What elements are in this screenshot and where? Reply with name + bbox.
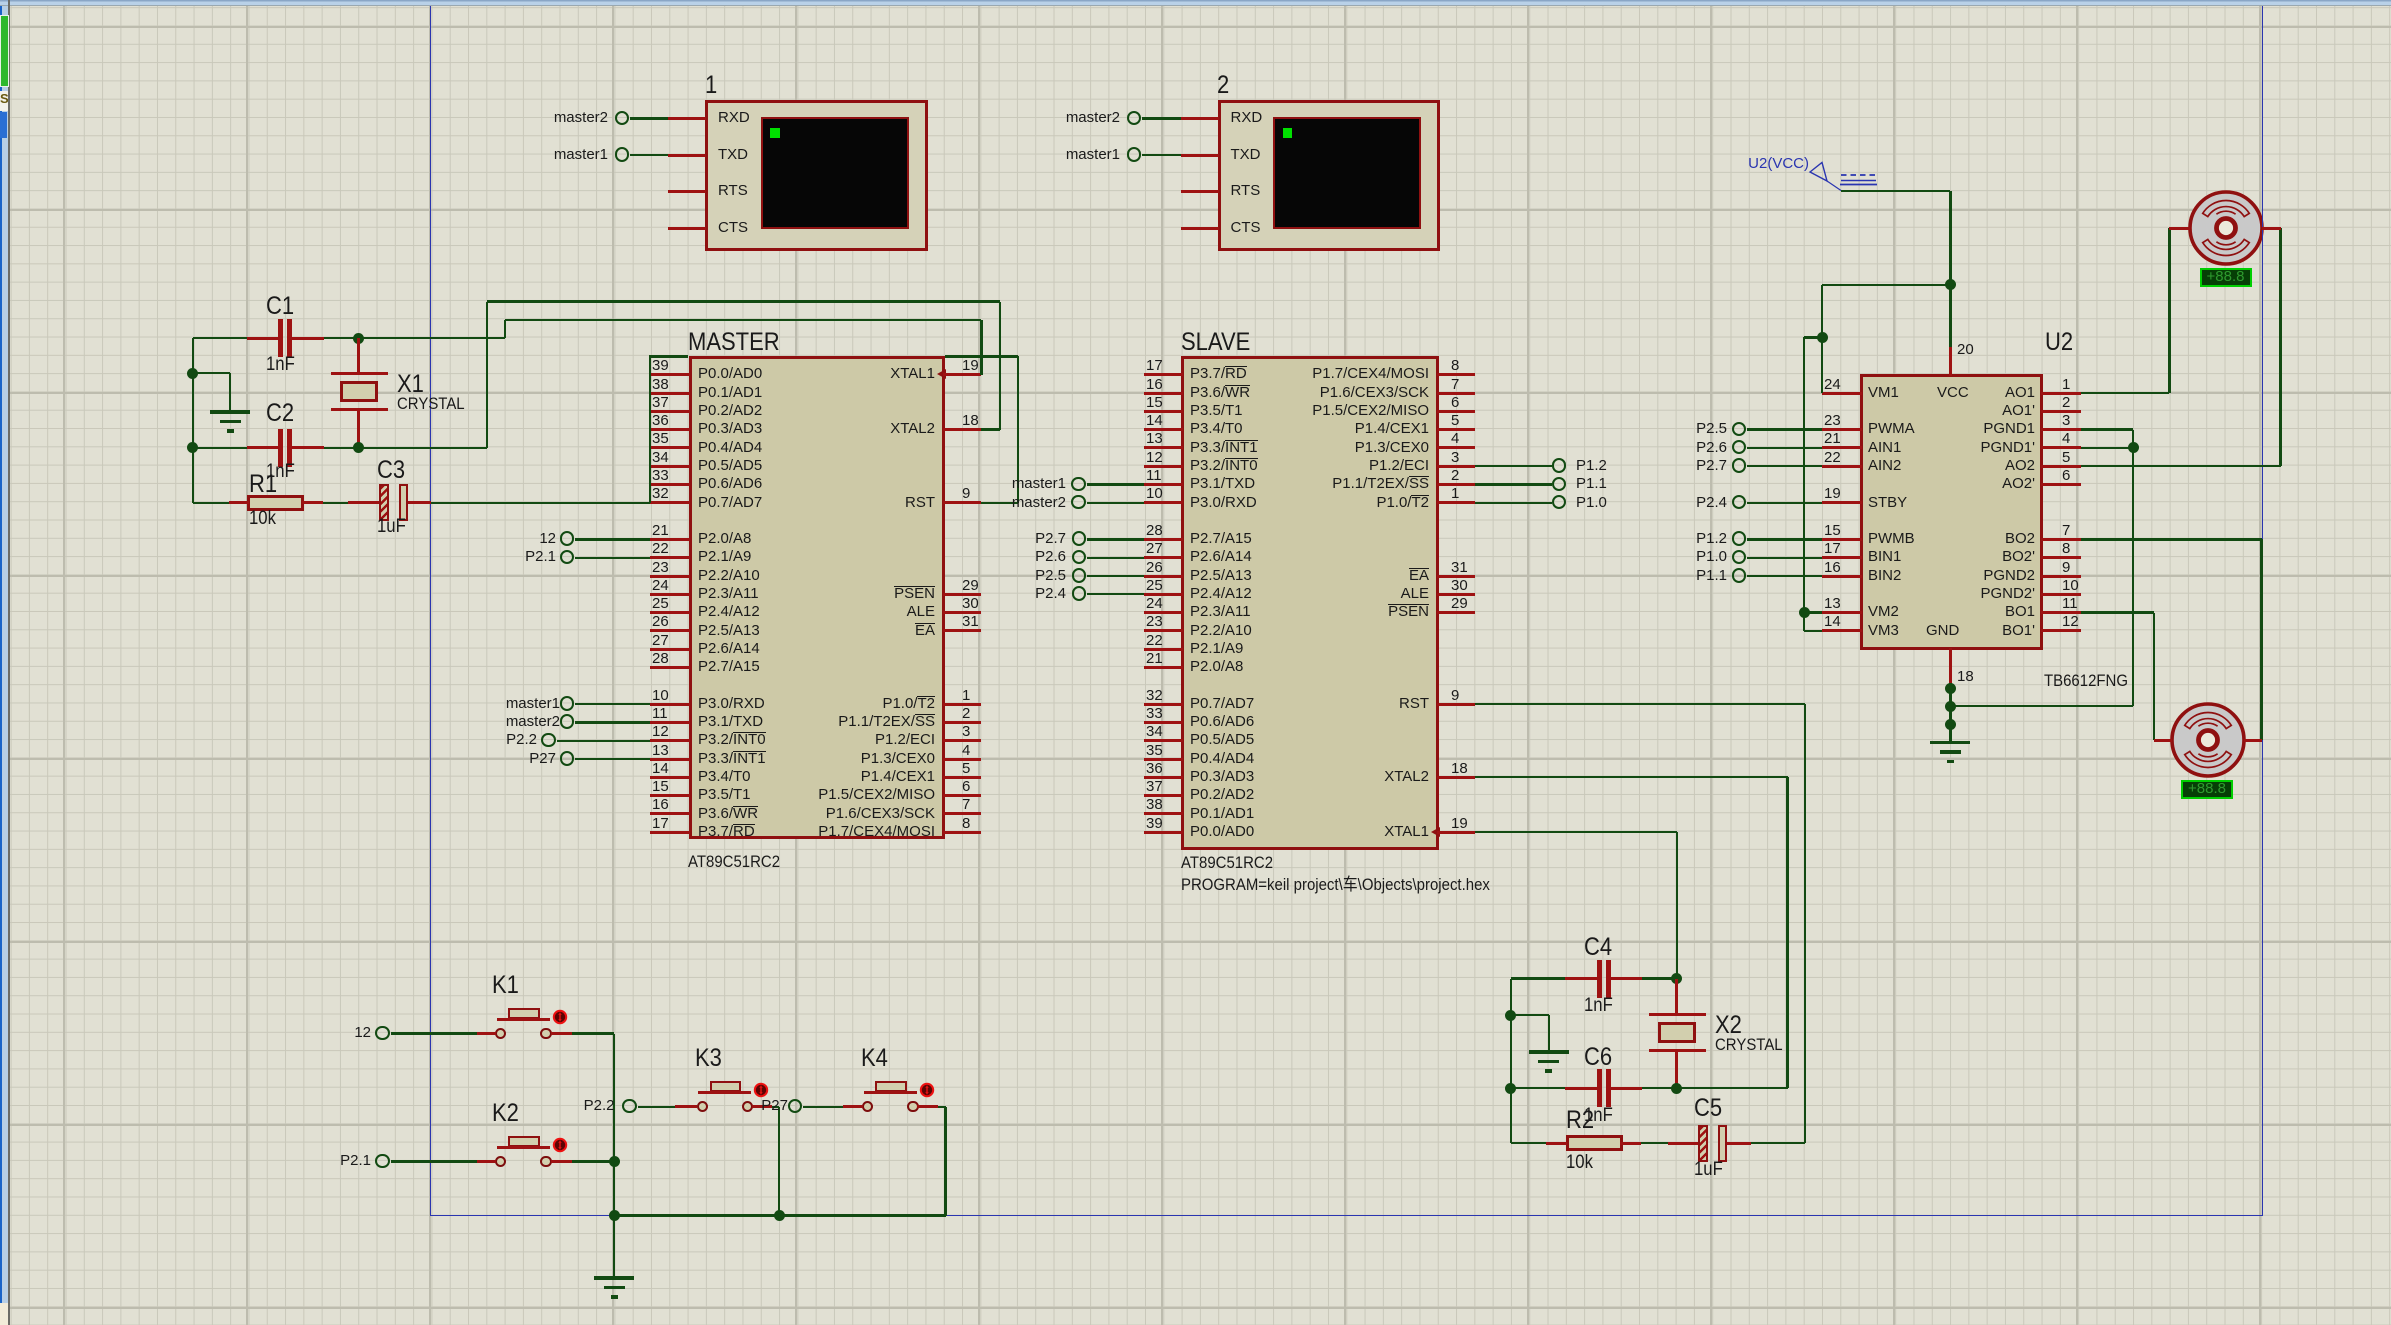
wire right cluster rail vertical	[1510, 979, 1512, 1144]
terminal master1 (to VT2 TXD)	[1127, 147, 1142, 162]
wire master2 to VT2	[1142, 117, 1181, 119]
motor M1 pin left	[2169, 227, 2190, 230]
push button K4	[861, 1043, 888, 1074]
wire P2.7 to SLAVE	[1087, 538, 1143, 540]
crystal X1	[357, 338, 360, 374]
SLAVE left pins with numbers	[1144, 373, 1183, 376]
wire P2.6 to U2	[1747, 447, 1822, 449]
node C6/X2 junction	[1671, 1083, 1682, 1094]
wire MASTER P0 bus top segment	[650, 355, 688, 357]
terminal P1.0 (U2)	[1732, 550, 1747, 565]
U2 GND pin 18	[1949, 648, 1952, 683]
terminal master2 (SLAVE P3.0)	[1071, 495, 1086, 510]
wire XTAL2 stub link	[981, 428, 999, 430]
terminal 12 (MASTER P2.0)	[560, 531, 575, 546]
wire C4 row left segment	[1511, 977, 1565, 979]
wire R2 row left segment	[1511, 1142, 1546, 1144]
wire P1.2 to U2	[1747, 538, 1822, 540]
VT1 pin TXD	[668, 154, 706, 157]
wire VCC flag horizontal	[1841, 190, 1950, 192]
SLAVE program property label	[1181, 874, 1490, 895]
driver U2 title	[2045, 327, 2073, 358]
node VM2 junction	[1799, 607, 1810, 618]
wire R2 to C5	[1641, 1142, 1676, 1144]
wire SLAVE RST down to R2/C5 row	[1804, 704, 1806, 1143]
MASTER left pins with numbers	[650, 373, 690, 376]
node K3 bus junction	[774, 1210, 785, 1221]
motor M1 rpm display +88.8	[2200, 268, 2252, 287]
wire GND stem	[1949, 683, 1951, 741]
wire VM1 drop	[1821, 285, 1823, 393]
node K2/bus junction	[609, 1156, 620, 1167]
motor M2 pin right	[2244, 739, 2262, 742]
wire P27 to K4	[803, 1106, 843, 1108]
MASTER XTAL1 pin arrowhead	[937, 369, 946, 379]
left toolbar S tab	[0, 91, 8, 111]
SLAVE part number label	[1181, 852, 1273, 873]
wire MASTER P0 bus vertical	[649, 355, 651, 503]
wire 12 to K1	[391, 1032, 477, 1034]
wire PGND1-prime to bus	[2081, 447, 2134, 449]
MCU SLAVE title	[1181, 327, 1250, 358]
terminal P2.5 (SLAVE)	[1072, 568, 1087, 583]
wire RST vertical	[1017, 356, 1019, 502]
VT1 pin labels	[718, 109, 750, 128]
terminal P2.7 (SLAVE)	[1072, 531, 1087, 546]
capacitor C4	[1565, 977, 1597, 980]
node VCC junction	[1945, 279, 1956, 290]
wire C2 row left segment	[193, 447, 247, 449]
terminal P2.2 (button K3 input)	[622, 1099, 637, 1114]
wire P2.4 to U2	[1747, 502, 1822, 504]
wire left rail vertical	[192, 338, 194, 503]
sheet border left	[430, 6, 431, 1216]
wire C5 to RST drop	[1751, 1142, 1806, 1144]
U2 right pins with numbers	[2041, 392, 2081, 395]
K3 pin right	[752, 1105, 772, 1108]
wire XTAL2 net jog up	[486, 302, 488, 448]
wire XTAL1 net horizontal	[505, 319, 981, 321]
ground symbol U2	[1930, 741, 1970, 745]
VT2 screen	[1273, 117, 1421, 229]
capacitor C5 (1uF polarized)	[1668, 1142, 1698, 1145]
MCU SLAVE body (AT89C51RC2)	[1181, 356, 1439, 850]
MASTER right pins with numbers	[943, 373, 982, 376]
node ground tap left	[187, 368, 198, 379]
wire ground tap right	[1511, 1014, 1549, 1016]
terminal P2.1 (button K2 input)	[375, 1154, 390, 1169]
wire P2.1 to K2	[391, 1160, 477, 1162]
terminal P2.4 (U2)	[1732, 495, 1747, 510]
terminal 12 (button K1 input)	[375, 1026, 390, 1041]
wire K-bus vertical	[613, 1034, 615, 1216]
wire SLAVE XTAL2 down to C6 row	[1786, 777, 1788, 1088]
wire C1 row right segment	[324, 337, 359, 339]
push button K2	[492, 1098, 519, 1129]
push button K1	[492, 970, 519, 1001]
wire PGND bus to GND	[1950, 705, 2133, 707]
U2 VCC label	[1937, 384, 1969, 403]
wire VM2 link	[1804, 611, 1822, 613]
VT2 pin CTS	[1181, 227, 1219, 230]
wire P2.4 to SLAVE	[1087, 593, 1143, 595]
wire SLAVE RST right	[1475, 703, 1805, 705]
capacitor C2	[247, 446, 278, 449]
wire K4 down	[938, 1106, 946, 1108]
wire C3 to MASTER P0 bus	[431, 502, 650, 504]
capacitor C3 (1uF polarized)	[348, 501, 379, 504]
wire ground tap left	[193, 372, 230, 374]
wire PGND1 to bus	[2081, 428, 2134, 430]
K1 pin right	[551, 1032, 572, 1035]
motor M1 pin right	[2262, 227, 2281, 230]
capacitor C6	[1565, 1087, 1597, 1090]
wire P2.7 to U2	[1747, 465, 1822, 467]
node C2/X1 junction	[353, 442, 364, 453]
node ground tap right	[1505, 1010, 1516, 1021]
K1 pin left	[477, 1032, 496, 1035]
terminal master1 (SLAVE P3.1)	[1071, 477, 1086, 492]
wire P1.1 to U2	[1747, 575, 1822, 577]
window chrome left strip	[0, 6, 8, 1325]
wire master1 to VT2	[1142, 154, 1181, 156]
wire K2 to bus	[572, 1160, 614, 1162]
node bus/ground junction	[609, 1210, 620, 1221]
VT2 pin RTS	[1181, 190, 1219, 193]
terminal P1.1 (SLAVE)	[1552, 477, 1567, 492]
terminal P2.6 (U2)	[1732, 440, 1747, 455]
U2 left pins with numbers	[1822, 392, 1862, 395]
wire PGND bus down	[2132, 430, 2134, 706]
node GND junction 1	[1945, 683, 1956, 694]
wire master2 to VT1	[630, 117, 668, 119]
wire C4 row right segment	[1642, 977, 1677, 979]
node GND junction 3	[1945, 719, 1956, 730]
power flag U2(VCC)	[1748, 155, 1809, 174]
wire VCC net down	[1949, 191, 1951, 347]
motor M2	[2168, 700, 2248, 780]
U2 GND label	[1926, 622, 1959, 641]
wire P2.5 to U2	[1747, 428, 1822, 430]
terminal P2.6 (SLAVE)	[1072, 550, 1087, 565]
wire RST horizontal to pin 9	[981, 502, 1017, 504]
wire C6 row left segment	[1511, 1087, 1565, 1089]
terminal master2 (to VT1 RXD)	[615, 111, 630, 126]
wire P2.6 to SLAVE	[1087, 557, 1143, 559]
motor M1	[2186, 188, 2266, 268]
VT1 pin CTS	[668, 227, 706, 230]
window chrome top bar	[0, 0, 2391, 6]
resistor R1	[229, 501, 249, 504]
wire bottom ground bus	[614, 1214, 945, 1217]
terminal P2.5 (U2)	[1732, 422, 1747, 437]
wire VM bus jog	[1804, 336, 1822, 338]
resistor R2	[1546, 1142, 1567, 1145]
virtual terminal VT2 body	[1218, 100, 1440, 251]
U2 part number label	[2044, 670, 2128, 691]
wire XTAL1 net jog up	[504, 320, 506, 338]
wire master1 to VT1	[630, 154, 668, 156]
wire SLAVE XTAL1 right	[1475, 831, 1677, 833]
wire XTAL2 net down to pin 18	[999, 302, 1001, 430]
wire SLAVE XTAL1 down to C4 row	[1676, 832, 1678, 978]
terminal P27 (button K4 input)	[788, 1099, 803, 1114]
terminal master2 (MASTER P3.1)	[560, 714, 575, 729]
K4 pin left	[843, 1105, 863, 1108]
SLAVE XTAL1 pin arrowhead	[1431, 827, 1440, 837]
wire P1.0 to U2	[1747, 557, 1822, 559]
terminal P2.4 (SLAVE)	[1072, 586, 1087, 601]
SLAVE right pins with numbers	[1437, 373, 1476, 376]
wire K1 to bus	[572, 1032, 614, 1034]
crystal X2	[1675, 979, 1678, 1015]
capacitor C1	[247, 337, 278, 340]
ground symbol bottom	[594, 1276, 634, 1280]
terminal master1 (MASTER P3.0)	[560, 696, 575, 711]
wire SLAVE XTAL2 right	[1475, 776, 1787, 778]
wire ground stem bottom	[613, 1216, 615, 1276]
push button K3	[695, 1043, 722, 1074]
terminal P1.1 (U2)	[1732, 568, 1747, 583]
wire master1 to SLAVE	[1087, 483, 1144, 485]
K2 pin right	[551, 1160, 572, 1163]
wire P2.2 to K3	[638, 1106, 676, 1108]
sheet border right	[2262, 6, 2263, 1216]
wire VCC to VM bus horizontal	[1822, 284, 1950, 286]
terminal master2 (to VT2 RXD)	[1127, 111, 1142, 126]
MASTER part number label	[688, 851, 780, 872]
node GND junction 2	[1945, 701, 1956, 712]
node PGND junction	[2128, 442, 2139, 453]
node C1/X1 junction	[353, 333, 364, 344]
sheet border bottom	[430, 1215, 2263, 1216]
wire node top-right corner to RST (horizontal over chip corner)	[945, 355, 1018, 357]
terminal master1 (to VT1 TXD)	[615, 147, 630, 162]
wire R1 to C3	[323, 502, 356, 504]
VT2 pin RXD	[1181, 117, 1219, 120]
wire BO2 to motor2 right	[2081, 538, 2262, 540]
wire VM bus vertical	[1803, 337, 1805, 631]
terminal P1.2 (SLAVE)	[1552, 458, 1567, 473]
MCU MASTER title	[688, 327, 780, 358]
VT1 screen	[761, 117, 909, 229]
wire R1 row left segment	[193, 502, 229, 504]
K4 pin right	[917, 1105, 938, 1108]
virtual terminal 1 label	[705, 70, 717, 101]
virtual terminal 2 label	[1217, 70, 1229, 101]
left toolbar green button	[0, 15, 9, 87]
node VM bus junction	[1817, 332, 1828, 343]
VT1 pin RXD	[668, 117, 706, 120]
wire XTAL1 net: C1 row to jog	[359, 337, 506, 339]
VT1 cursor	[770, 128, 780, 138]
wire AO1 to motor1 left	[2081, 392, 2170, 394]
wire C6 row right segment	[1642, 1087, 1677, 1089]
wire C6 row to XTAL2 drop	[1677, 1087, 1788, 1089]
node C6 row left junction	[1505, 1083, 1516, 1094]
VT2 pin labels	[1231, 109, 1263, 128]
ground symbol left cluster	[210, 410, 250, 414]
wire K3 down	[772, 1106, 779, 1108]
wire master2 to SLAVE	[1087, 502, 1144, 504]
driver U2 body (TB6612FNG)	[1860, 374, 2043, 650]
VT2 cursor	[1283, 128, 1293, 138]
terminal P2.2 (MASTER P3.2)	[541, 733, 556, 748]
wire C1 row left segment	[193, 337, 247, 339]
wire XTAL2 net horizontal	[487, 300, 1000, 302]
wire SLAVE P1.0	[1475, 502, 1552, 504]
terminal P27 (MASTER P3.3)	[560, 751, 575, 766]
wire SLAVE P1.1	[1475, 483, 1552, 485]
wire VM3 link	[1804, 630, 1822, 632]
VT1 pin RTS	[668, 190, 706, 193]
wire SLAVE P1.2	[1475, 465, 1552, 467]
terminal P2.1 (MASTER P2.1)	[560, 550, 575, 565]
wire XTAL1 net down to pin 19	[980, 320, 982, 375]
terminal P1.2 (U2)	[1732, 531, 1747, 546]
U2 VCC pin 20	[1949, 347, 1952, 376]
K2 pin left	[477, 1160, 496, 1163]
terminal P2.7 (U2)	[1732, 458, 1747, 473]
ground symbol right cluster	[1529, 1050, 1569, 1054]
motor M2 rpm display +88.8	[2181, 780, 2233, 799]
MCU MASTER body (AT89C51RC2)	[689, 356, 945, 838]
VT2 pin TXD	[1181, 154, 1219, 157]
wire AO2 to motor1 right	[2081, 465, 2281, 467]
node C4/X2 junction	[1671, 973, 1682, 984]
wire P2.5 to SLAVE	[1087, 575, 1143, 577]
virtual terminal VT1 body	[705, 100, 928, 251]
left toolbar blue button	[0, 112, 7, 138]
motor M2 pin left	[2154, 739, 2172, 742]
node C2 row left junction	[187, 442, 198, 453]
wire BO1 to motor2 left	[2081, 611, 2154, 613]
wire XTAL2 net: C2 row to jog	[359, 447, 487, 449]
wire C2 row right segment	[324, 447, 359, 449]
K3 pin left	[675, 1105, 697, 1108]
terminal P1.0 (SLAVE)	[1552, 495, 1567, 510]
